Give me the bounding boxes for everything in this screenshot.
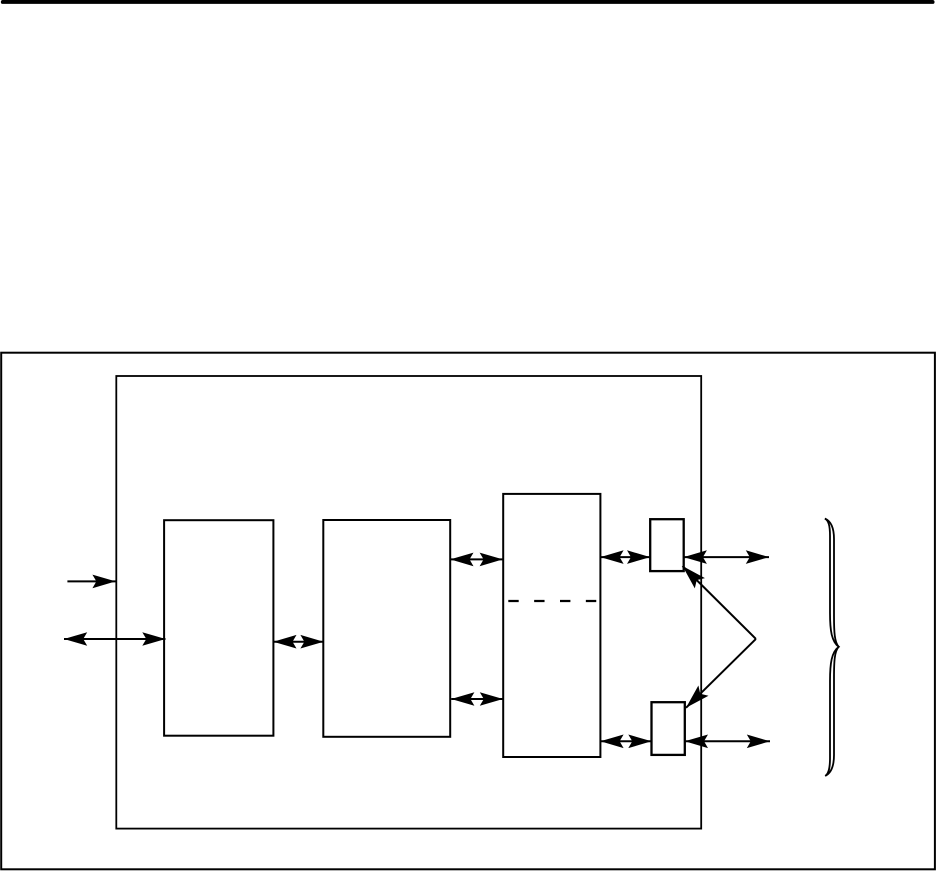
brace: [825, 519, 839, 776]
arrow B2-B3 upper: [450, 553, 503, 567]
arrow input: [67, 575, 115, 589]
arrow B1-B2: [273, 635, 323, 649]
arrow M2 external: [685, 735, 770, 749]
arrow B3-M2: [600, 735, 651, 749]
enclosure U1: [116, 376, 701, 829]
arrow M1 external: [684, 550, 769, 564]
arrow B2-B3 lower: [451, 692, 503, 706]
block B1: [164, 520, 273, 736]
pointer to M1: [677, 561, 755, 639]
module M1: [650, 519, 684, 571]
block B2: [323, 520, 450, 737]
arrow B3-M1: [600, 550, 650, 564]
dashed divider in block B3: [508, 600, 596, 602]
pointer to M2: [681, 639, 756, 713]
module M2: [652, 702, 685, 755]
block B3: [503, 494, 600, 757]
arrow bus left: [64, 632, 166, 646]
